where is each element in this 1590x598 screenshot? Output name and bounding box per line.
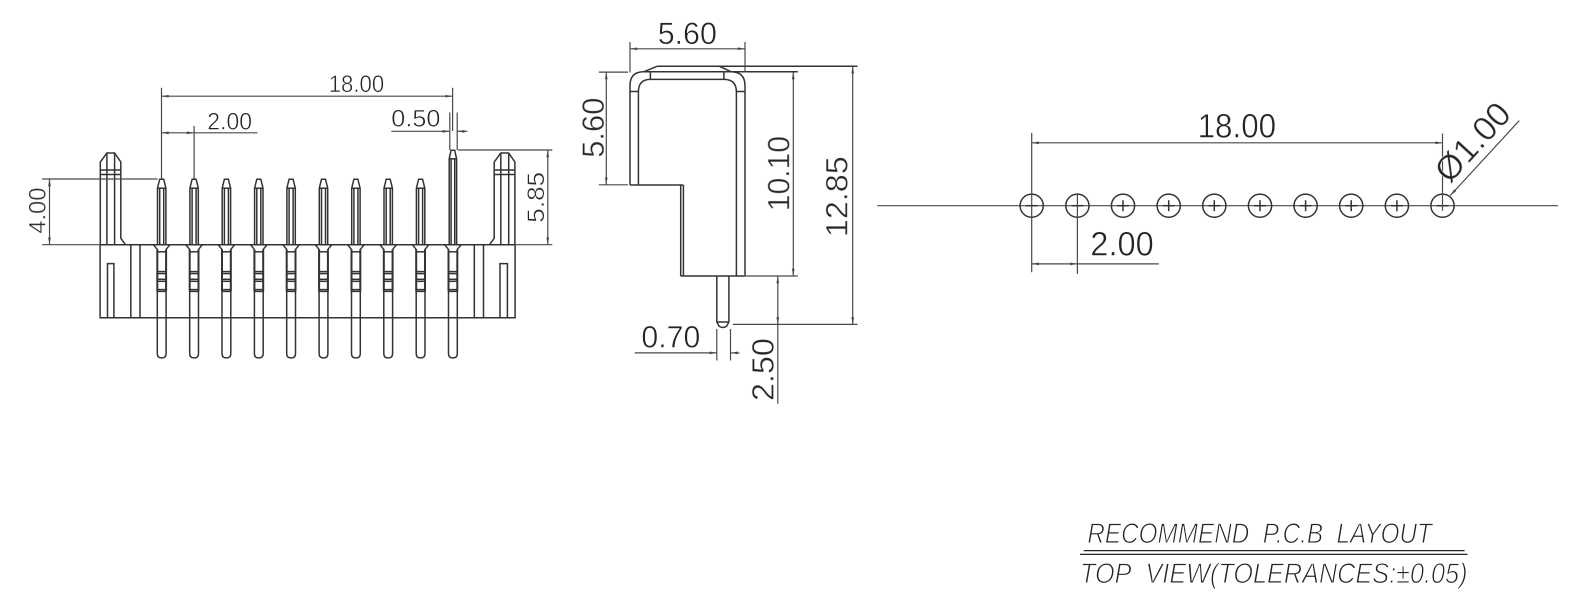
pcb hole H10 (1431, 134, 1454, 218)
body right slot (500, 264, 507, 318)
svg-text:5.60: 5.60 (576, 98, 611, 158)
side view housing outline (630, 66, 858, 276)
pin P7 front view (348, 179, 365, 358)
svg-text:12.85: 12.85 (820, 156, 855, 237)
pin P3 front view (218, 179, 235, 358)
pin P4 front view (251, 179, 268, 358)
title line TOP VIEW TOLERANCES (1080, 558, 1468, 590)
svg-text:2.00: 2.00 (1090, 226, 1154, 264)
body left slot (108, 264, 114, 318)
pcb hole H8 (1340, 194, 1363, 217)
pin P10 front view (445, 150, 462, 358)
pin P6 front view (315, 179, 332, 358)
left latch post (100, 153, 125, 245)
pin P2 front view (186, 179, 203, 358)
side view pin (717, 276, 729, 328)
pcb hole H7 (1294, 194, 1317, 217)
svg-text:18.00: 18.00 (1198, 108, 1277, 146)
dimension 0.70 (side view) (635, 320, 740, 361)
title underline double (1080, 551, 1468, 555)
dimension 12.85 (side view) (733, 66, 858, 324)
dimension 10.10 (side view) (745, 72, 798, 276)
svg-text:2.00: 2.00 (207, 108, 252, 135)
dimension 2.50 (side view) (746, 276, 781, 404)
svg-text:5.85: 5.85 (523, 172, 550, 223)
body interior wall lines (131, 245, 484, 318)
dimension 18.00 (left view) (162, 71, 453, 179)
dimension 18.00 (pcb layout) (1032, 108, 1443, 146)
title line RECOMMEND P.C.B LAYOUT (1087, 518, 1434, 550)
svg-text:5.60: 5.60 (658, 16, 717, 51)
dimension diameter 1.00 leader (pcb layout) (1427, 95, 1519, 195)
pcb hole H5 (1203, 194, 1226, 217)
pcb hole H9 (1385, 194, 1408, 217)
dimension 5.60 left (side view) (576, 72, 628, 185)
pin P9 front view (412, 179, 429, 358)
connector body front view (100, 245, 515, 318)
svg-text:RECOMMEND P.C.B LAYOUT: RECOMMEND P.C.B LAYOUT (1087, 518, 1434, 550)
svg-text:4.00: 4.00 (25, 188, 52, 234)
pcb hole H3 (1111, 194, 1134, 217)
svg-text:TOP VIEW(TOLERANCES:±0.05): TOP VIEW(TOLERANCES:±0.05) (1080, 558, 1468, 590)
dimension 2.00 (left view) (162, 108, 258, 178)
dimension 0.50 (left view) (391, 105, 467, 150)
pin P8 front view (380, 179, 397, 358)
svg-text:10.10: 10.10 (762, 136, 797, 211)
svg-text:0.70: 0.70 (641, 320, 700, 355)
pcb centerline (877, 205, 1558, 207)
svg-text:0.50: 0.50 (391, 105, 440, 132)
svg-text:18.00: 18.00 (329, 71, 385, 98)
svg-text:2.50: 2.50 (746, 338, 781, 401)
pin P1 front view (153, 179, 170, 358)
pcb hole H1 (1020, 133, 1043, 272)
dimension 5.85 (left view) (458, 150, 552, 245)
right latch post (490, 153, 515, 245)
pcb hole H6 (1248, 194, 1271, 217)
dimension 2.00 (pcb layout) (1032, 226, 1159, 266)
pcb hole H4 (1157, 194, 1180, 217)
dimension 4.00 (left view) (25, 179, 158, 245)
pin P5 front view (283, 179, 300, 358)
dimension 5.60 top (side view) (630, 16, 745, 72)
pcb hole H2 (1066, 194, 1089, 274)
